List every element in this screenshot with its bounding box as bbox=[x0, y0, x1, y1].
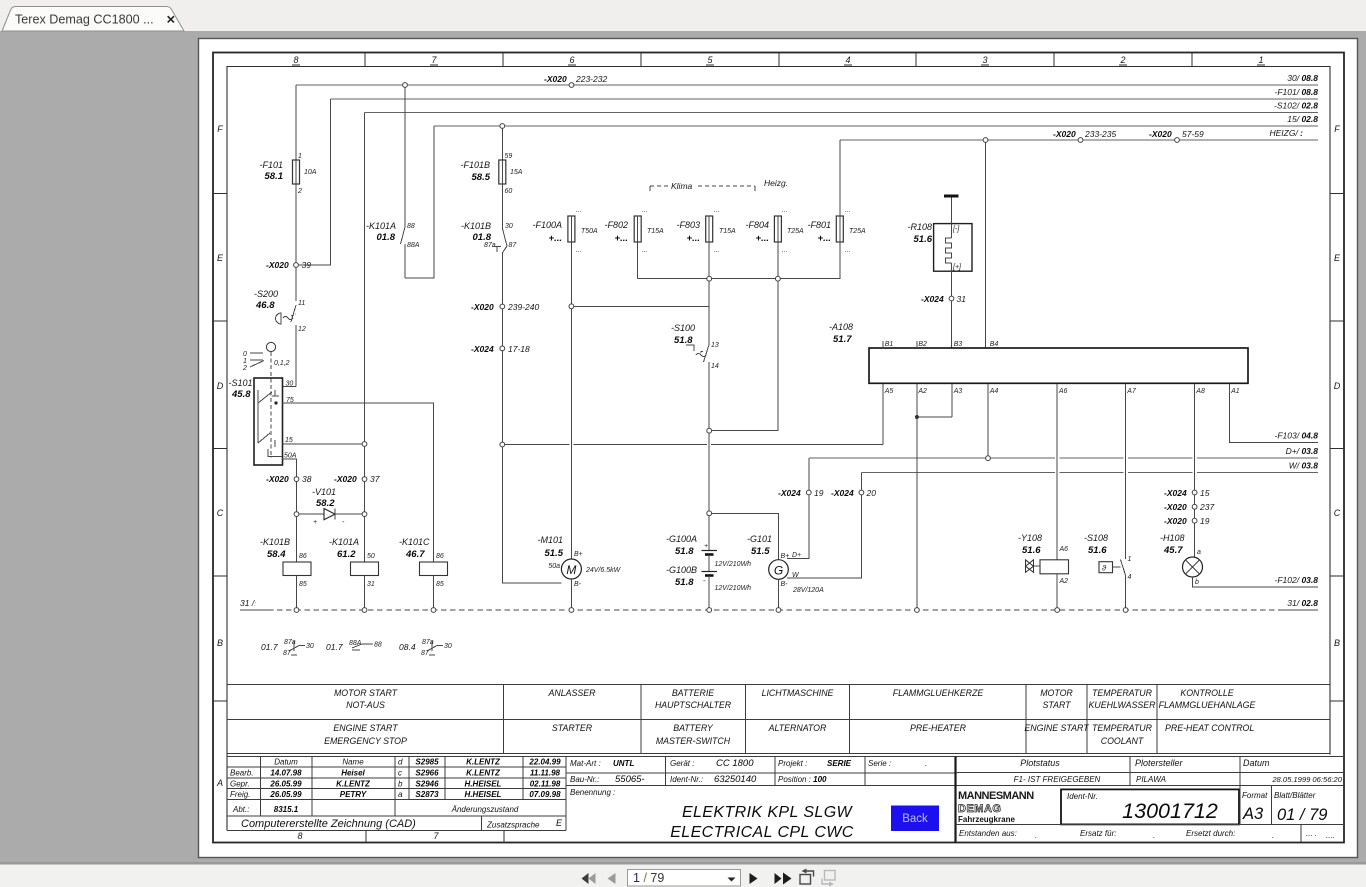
svg-text:57-59: 57-59 bbox=[1182, 129, 1204, 139]
svg-text:87: 87 bbox=[283, 650, 292, 657]
relay coil K101B bbox=[260, 537, 311, 610]
svg-text:15: 15 bbox=[285, 437, 293, 444]
svg-text:15A: 15A bbox=[510, 169, 523, 176]
svg-text:-G101: -G101 bbox=[747, 534, 772, 544]
svg-text:-V101: -V101 bbox=[312, 487, 336, 497]
node junction F804 bus bbox=[776, 276, 781, 281]
right margin row letters bbox=[1334, 124, 1341, 648]
svg-text:.: . bbox=[1272, 831, 1274, 840]
svg-text:28.05.1999 06:56:20: 28.05.1999 06:56:20 bbox=[1271, 775, 1342, 784]
svg-text:-X020: -X020 bbox=[544, 74, 567, 84]
document tab bbox=[2, 7, 184, 32]
svg-text:F: F bbox=[1334, 124, 1340, 134]
svg-text:G: G bbox=[774, 564, 783, 578]
battery G100B bbox=[666, 565, 751, 610]
svg-text:Ersetzt durch:: Ersetzt durch: bbox=[1186, 829, 1235, 838]
svg-text:24V/6.5kW: 24V/6.5kW bbox=[585, 567, 622, 574]
drawing inner frame bbox=[227, 67, 1330, 831]
svg-text:+...: +... bbox=[687, 233, 700, 244]
wire bus 30 (line 1) bbox=[296, 84, 1318, 86]
svg-text:MOTOR: MOTOR bbox=[1040, 688, 1073, 698]
svg-text:PRE-HEAT CONTROL: PRE-HEAT CONTROL bbox=[1165, 723, 1254, 733]
wire F803 bus down to S100 feed bbox=[708, 281, 710, 306]
relay contact K101A 88/88A bbox=[366, 83, 420, 278]
svg-text:30: 30 bbox=[505, 223, 513, 230]
svg-text:87: 87 bbox=[421, 650, 430, 657]
svg-text:233-235: 233-235 bbox=[1084, 129, 1116, 139]
svg-text:-F103/ 04.8: -F103/ 04.8 bbox=[1275, 431, 1319, 441]
wire S101-75 to K101C bbox=[282, 403, 434, 562]
svg-text:-X024: -X024 bbox=[1164, 488, 1187, 498]
svg-text:8: 8 bbox=[293, 55, 298, 65]
svg-text:BATTERY: BATTERY bbox=[673, 723, 714, 733]
toolbar previous-view icon bbox=[800, 869, 814, 885]
svg-text:T15A: T15A bbox=[719, 228, 736, 235]
connector -X020 237 bbox=[1164, 495, 1214, 512]
svg-text:51.5: 51.5 bbox=[751, 546, 770, 557]
svg-text:87: 87 bbox=[509, 242, 518, 249]
bottom margin column ticks and numbers bbox=[366, 831, 504, 842]
wire W bus bbox=[861, 472, 1318, 474]
svg-text:Format: Format bbox=[1242, 791, 1268, 800]
svg-text:Klima: Klima bbox=[671, 181, 693, 191]
svg-text:88: 88 bbox=[407, 223, 415, 230]
svg-text:4: 4 bbox=[845, 55, 850, 65]
svg-text:D+/ 03.8: D+/ 03.8 bbox=[1286, 446, 1319, 456]
svg-text:EMERGENCY STOP: EMERGENCY STOP bbox=[324, 736, 407, 746]
wire battery column bbox=[708, 433, 710, 550]
svg-text:A3: A3 bbox=[1242, 805, 1264, 823]
svg-text:38: 38 bbox=[302, 474, 312, 484]
svg-text:50: 50 bbox=[367, 553, 375, 560]
svg-text:26.05.99: 26.05.99 bbox=[269, 779, 302, 788]
svg-text:237: 237 bbox=[1199, 502, 1214, 512]
svg-text:11.11.98: 11.11.98 bbox=[530, 769, 561, 778]
svg-text:A: A bbox=[216, 778, 223, 788]
svg-text:12: 12 bbox=[298, 326, 306, 333]
svg-text:Serie :: Serie : bbox=[868, 759, 891, 768]
svg-text:B-: B- bbox=[574, 581, 582, 588]
svg-text:B+: B+ bbox=[574, 551, 583, 558]
svg-text:ELEKTRIK KPL SLGW: ELEKTRIK KPL SLGW bbox=[682, 804, 854, 821]
svg-text:B+: B+ bbox=[781, 553, 790, 560]
svg-text:Ersatz für:: Ersatz für: bbox=[1080, 829, 1116, 838]
wire S100 feed horizontal bbox=[574, 305, 709, 307]
svg-text:-X024: -X024 bbox=[471, 344, 494, 354]
toolbar first-page button bbox=[582, 873, 596, 884]
svg-text:B: B bbox=[1334, 638, 1340, 648]
wire bus -S102 (line 3) bbox=[365, 112, 1319, 114]
svg-text:D: D bbox=[217, 381, 224, 391]
connector -X020 239-240 bbox=[471, 302, 539, 312]
svg-text:A4: A4 bbox=[989, 388, 999, 395]
svg-text:-S108: -S108 bbox=[1084, 533, 1108, 543]
wire R108 to B3 bbox=[951, 301, 953, 348]
svg-text:E: E bbox=[1334, 253, 1341, 263]
wire X020-39 to bus line2 bbox=[298, 99, 331, 265]
svg-text:B4: B4 bbox=[990, 341, 999, 348]
node junction 50a feed bbox=[500, 442, 505, 447]
svg-text:B: B bbox=[217, 638, 223, 648]
svg-text:Plotstatus: Plotstatus bbox=[1020, 758, 1060, 768]
wire HEIZG to B4 bbox=[985, 142, 987, 348]
connector -X024 17-18 bbox=[471, 309, 530, 354]
svg-text:239-240: 239-240 bbox=[507, 302, 539, 312]
wire A6 to Y108 bbox=[1056, 384, 1058, 560]
relay contact K101B 30/87a/87 bbox=[461, 184, 517, 304]
svg-text:A6: A6 bbox=[1059, 546, 1069, 553]
svg-text:-K101B: -K101B bbox=[260, 537, 290, 547]
connector -X024 19 bbox=[778, 488, 824, 498]
svg-text:HEIZG/ :: HEIZG/ : bbox=[1269, 128, 1303, 138]
svg-text:Freig.: Freig. bbox=[230, 790, 250, 799]
svg-text:KONTROLLE: KONTROLLE bbox=[1180, 688, 1233, 698]
svg-text:CC 1800: CC 1800 bbox=[716, 758, 754, 769]
svg-text:S2966: S2966 bbox=[415, 769, 439, 778]
svg-text:FLAMMGLUEHANLAGE: FLAMMGLUEHANLAGE bbox=[1159, 700, 1256, 710]
svg-text:-G100B: -G100B bbox=[666, 565, 697, 575]
svg-text:-X020: -X020 bbox=[471, 302, 494, 312]
svg-text:HAUPTSCHALTER: HAUPTSCHALTER bbox=[655, 700, 732, 710]
svg-text:.: . bbox=[1153, 831, 1155, 840]
svg-text:26.05.99: 26.05.99 bbox=[269, 790, 302, 799]
wire F101 column x296 bbox=[282, 85, 296, 387]
svg-text:13: 13 bbox=[711, 342, 719, 349]
wire A1 to F103 bbox=[1229, 384, 1318, 443]
svg-text:Bau-Nr.:: Bau-Nr.: bbox=[570, 775, 600, 784]
svg-text:20: 20 bbox=[866, 488, 877, 498]
svg-text:A2: A2 bbox=[917, 388, 927, 395]
toolbar next-page button bbox=[750, 873, 758, 884]
svg-text:...: ... bbox=[576, 247, 582, 254]
wire bus HEIZG (line 5) bbox=[840, 139, 1318, 141]
title block centre section grid bbox=[566, 757, 1343, 786]
svg-text:Back: Back bbox=[902, 813, 928, 825]
wire K101A contact loop to bus 15 bbox=[405, 126, 434, 278]
svg-text:01 / 79: 01 / 79 bbox=[1277, 806, 1327, 824]
Mannesmann Demag logo bbox=[958, 790, 1034, 824]
svg-text:51.8: 51.8 bbox=[675, 546, 694, 557]
node ground junction A2 bbox=[915, 608, 920, 613]
svg-text:NOT-AUS: NOT-AUS bbox=[346, 700, 385, 710]
svg-text:S2946: S2946 bbox=[415, 779, 439, 788]
connector -X020 57-59 bbox=[1149, 129, 1204, 142]
svg-text:14: 14 bbox=[711, 363, 719, 370]
svg-text:-S100: -S100 bbox=[671, 323, 695, 333]
svg-text:-F102/ 03.8: -F102/ 03.8 bbox=[1275, 575, 1319, 585]
svg-text:F1- IST FREIGEGEBEN: F1- IST FREIGEGEBEN bbox=[1014, 775, 1101, 784]
node junction F101B on line 4 bbox=[500, 124, 505, 129]
svg-text:+: + bbox=[313, 519, 317, 526]
svg-text:51.5: 51.5 bbox=[545, 548, 564, 559]
ground bus 31 bbox=[240, 598, 1318, 610]
svg-text:58.4: 58.4 bbox=[267, 549, 286, 560]
wire K101B to junction 15-line bbox=[501, 351, 503, 442]
svg-text:Projekt :: Projekt : bbox=[778, 759, 807, 768]
svg-text:-F802: -F802 bbox=[604, 220, 628, 230]
relay coil K101C bbox=[399, 537, 448, 610]
svg-text:30/ 08.8: 30/ 08.8 bbox=[1287, 73, 1318, 83]
top margin column ticks bbox=[365, 53, 1192, 67]
svg-text:Computererstellte Zeichnung (C: Computererstellte Zeichnung (CAD) bbox=[241, 818, 416, 830]
svg-text:17-18: 17-18 bbox=[508, 344, 530, 354]
svg-text:19: 19 bbox=[1200, 516, 1210, 526]
svg-text:....: .... bbox=[1326, 831, 1335, 840]
svg-text:-F100A: -F100A bbox=[532, 220, 562, 230]
svg-text:-H108: -H108 bbox=[1160, 533, 1185, 543]
wire W from G101 bbox=[787, 495, 861, 578]
svg-text:K.LENTZ: K.LENTZ bbox=[466, 758, 501, 767]
svg-text:STARTER: STARTER bbox=[552, 723, 593, 733]
wire W connector to bus bbox=[860, 473, 862, 491]
switch S100 bbox=[671, 306, 719, 428]
svg-text:A5: A5 bbox=[884, 388, 894, 395]
connector -X020 37 bbox=[334, 474, 380, 484]
svg-text:-A108: -A108 bbox=[829, 322, 853, 332]
svg-text:MASTER-SWITCH: MASTER-SWITCH bbox=[656, 736, 731, 746]
title block personnel table bbox=[227, 757, 1343, 831]
svg-text:-X024: -X024 bbox=[921, 294, 944, 304]
wire S101-50A down bbox=[282, 459, 297, 477]
svg-text:D: D bbox=[1334, 381, 1341, 391]
svg-text:13001712: 13001712 bbox=[1122, 799, 1218, 823]
svg-text:-X020: -X020 bbox=[334, 474, 357, 484]
svg-text:-X020: -X020 bbox=[1053, 129, 1076, 139]
svg-text:ALTERNATOR: ALTERNATOR bbox=[768, 723, 827, 733]
svg-text:BATTERIE: BATTERIE bbox=[672, 688, 714, 698]
svg-text:86: 86 bbox=[436, 553, 444, 560]
svg-text:Änderungszustand: Änderungszustand bbox=[451, 805, 519, 814]
svg-text:2: 2 bbox=[242, 365, 247, 372]
connector -X020 19 bbox=[1164, 509, 1210, 526]
svg-text:11: 11 bbox=[298, 300, 305, 307]
wire S102 column x364.5 bbox=[364, 113, 366, 563]
svg-text:51.6: 51.6 bbox=[1088, 545, 1107, 556]
node ground junction G101 bbox=[776, 608, 781, 613]
svg-text:A6: A6 bbox=[1058, 388, 1068, 395]
wire fuse bottoms bus bbox=[638, 242, 841, 279]
svg-text:-G100A: -G100A bbox=[666, 534, 697, 544]
svg-text:-S101: -S101 bbox=[228, 378, 252, 388]
svg-text:d: d bbox=[398, 758, 403, 767]
svg-text:01.8: 01.8 bbox=[377, 232, 396, 243]
svg-text:a: a bbox=[398, 790, 403, 799]
svg-text:C: C bbox=[1334, 508, 1341, 518]
svg-text:T15A: T15A bbox=[647, 228, 664, 235]
svg-text:C: C bbox=[217, 508, 224, 518]
svg-text:PRE-HEATER: PRE-HEATER bbox=[910, 723, 967, 733]
svg-text:START: START bbox=[1042, 700, 1071, 710]
svg-text:+...: +... bbox=[818, 233, 831, 244]
svg-text:c: c bbox=[398, 769, 402, 778]
svg-text:Name: Name bbox=[342, 758, 364, 767]
svg-text:-X020: -X020 bbox=[1164, 516, 1187, 526]
svg-text:37: 37 bbox=[370, 474, 380, 484]
connector -X020 39 bbox=[266, 260, 311, 270]
right margin row ticks bbox=[1330, 194, 1344, 702]
origin row bbox=[956, 824, 1344, 842]
svg-text:E: E bbox=[217, 253, 224, 263]
node ground junction Y108 bbox=[1055, 608, 1060, 613]
function table grid bbox=[227, 685, 1330, 754]
motor M101 bbox=[537, 535, 621, 610]
svg-text:10A: 10A bbox=[304, 169, 317, 176]
battery G100A bbox=[666, 534, 751, 572]
top tab strip bbox=[0, 0, 1366, 31]
page sheet bbox=[199, 39, 1358, 858]
node junction battery/G101 bbox=[707, 511, 712, 516]
svg-text:30: 30 bbox=[306, 643, 314, 650]
svg-text:31: 31 bbox=[957, 294, 967, 304]
label Klima group bbox=[650, 181, 755, 191]
svg-text:1: 1 bbox=[243, 358, 247, 365]
svg-text:Position : 100: Position : 100 bbox=[778, 775, 827, 784]
svg-text:07.09.98: 07.09.98 bbox=[529, 790, 561, 799]
top margin column numbers bbox=[293, 55, 1263, 65]
svg-text:Abt.:: Abt.: bbox=[232, 805, 249, 814]
function table texts bbox=[324, 688, 1255, 746]
wire A4 to D+ bbox=[986, 384, 991, 461]
svg-text:-K101A: -K101A bbox=[329, 537, 359, 547]
svg-text:Terex Demag CC1800 ...: Terex Demag CC1800 ... bbox=[15, 13, 154, 27]
svg-text:ENGINE START: ENGINE START bbox=[333, 723, 398, 733]
svg-text:✕: ✕ bbox=[166, 15, 176, 27]
diode V101 bbox=[294, 487, 367, 526]
wire bus 15 (line 4) bbox=[434, 125, 1318, 127]
svg-text:30: 30 bbox=[286, 381, 294, 388]
wire 15-line to A5 bbox=[505, 384, 884, 445]
svg-text:-X024: -X024 bbox=[831, 488, 854, 498]
svg-text:...: ... bbox=[642, 207, 648, 214]
fuse F802 bbox=[604, 207, 664, 254]
svg-text:...: ... bbox=[845, 207, 851, 214]
svg-text:51.7: 51.7 bbox=[833, 334, 852, 345]
svg-text:Zusatzsprache: Zusatzsprache bbox=[486, 821, 540, 830]
svg-text:86: 86 bbox=[299, 553, 307, 560]
svg-text:E: E bbox=[556, 818, 563, 828]
svg-text:1: 1 bbox=[1258, 55, 1263, 65]
wire F100A/M101 column x571.4 bbox=[570, 242, 572, 559]
svg-text:Heizg.: Heizg. bbox=[764, 178, 788, 188]
node ground junction M101 bbox=[569, 608, 574, 613]
svg-text:-S102/ 02.8: -S102/ 02.8 bbox=[1274, 101, 1318, 111]
svg-text:01.7: 01.7 bbox=[326, 642, 343, 652]
svg-text:-K101A: -K101A bbox=[366, 221, 396, 231]
wire HEIZG bus down to F801 bbox=[839, 140, 841, 216]
fuse F101B bbox=[460, 128, 522, 195]
svg-text:88A: 88A bbox=[349, 640, 362, 647]
solenoid valve Y108 bbox=[1018, 533, 1069, 610]
drawing outer frame bbox=[213, 53, 1344, 843]
svg-text:[-]: [-] bbox=[952, 226, 960, 233]
bottom toolbar strip bbox=[0, 862, 1366, 887]
svg-text:[+]: [+] bbox=[952, 264, 962, 271]
svg-text:Datum: Datum bbox=[274, 758, 298, 767]
node junction S100 feed bbox=[569, 304, 574, 309]
svg-text:...: ... bbox=[782, 247, 788, 254]
svg-text:ENGINE START: ENGINE START bbox=[1024, 723, 1089, 733]
svg-text:51.8: 51.8 bbox=[674, 335, 693, 346]
svg-text:-X020: -X020 bbox=[1164, 502, 1187, 512]
svg-text:30: 30 bbox=[444, 643, 452, 650]
svg-text:63250140: 63250140 bbox=[714, 774, 757, 785]
svg-text:KUEHLWASSER: KUEHLWASSER bbox=[1089, 700, 1157, 710]
wire A7 to S108 bbox=[1125, 384, 1127, 559]
svg-text:1 / 79: 1 / 79 bbox=[633, 871, 664, 885]
svg-text:LICHTMASCHINE: LICHTMASCHINE bbox=[762, 688, 834, 698]
svg-text:-F801: -F801 bbox=[807, 220, 831, 230]
svg-text:-F804: -F804 bbox=[745, 220, 769, 230]
svg-text:+...: +... bbox=[615, 233, 628, 244]
thick divider before plot section bbox=[954, 757, 956, 843]
svg-text:...: ... bbox=[642, 247, 648, 254]
svg-text:31 /:: 31 /: bbox=[240, 598, 256, 608]
svg-text:61.2: 61.2 bbox=[337, 549, 356, 560]
fuse F803 bbox=[676, 207, 736, 254]
svg-text:Ident-Nr.: Ident-Nr. bbox=[1067, 792, 1098, 801]
svg-text:-F101/ 08.8: -F101/ 08.8 bbox=[1275, 87, 1319, 97]
connector -X024 20 bbox=[831, 488, 876, 498]
resistor R108 bbox=[907, 196, 972, 271]
svg-text:Bearb.: Bearb. bbox=[230, 769, 254, 778]
svg-text:Benennung :: Benennung : bbox=[570, 788, 615, 797]
svg-text:-X024: -X024 bbox=[778, 488, 801, 498]
svg-text:Blatt/Blätter: Blatt/Blätter bbox=[1274, 791, 1316, 800]
svg-text:58.2: 58.2 bbox=[316, 498, 335, 509]
generator G101 bbox=[712, 513, 824, 610]
wire fuse bus to junction bbox=[712, 281, 778, 431]
svg-text:01.7: 01.7 bbox=[261, 642, 278, 652]
svg-text:T50A: T50A bbox=[581, 228, 598, 235]
svg-text:51.8: 51.8 bbox=[675, 577, 694, 588]
svg-text:59: 59 bbox=[505, 153, 513, 160]
svg-text:S2873: S2873 bbox=[415, 790, 439, 799]
svg-text:B1: B1 bbox=[885, 341, 894, 348]
connector -X020 233-235 bbox=[1053, 129, 1116, 142]
svg-text:-R108: -R108 bbox=[907, 222, 932, 232]
svg-text:0: 0 bbox=[243, 351, 247, 358]
svg-text:1: 1 bbox=[298, 153, 302, 160]
thermal switch S108 bbox=[1084, 533, 1132, 610]
svg-text:51.6: 51.6 bbox=[1022, 545, 1041, 556]
relay coil K101A bbox=[329, 537, 379, 610]
toolbar next-view icon bbox=[822, 871, 835, 887]
svg-text:46.7: 46.7 bbox=[405, 549, 425, 560]
svg-text:85: 85 bbox=[299, 581, 307, 588]
svg-text:M: M bbox=[566, 563, 576, 577]
svg-text:TEMPERATUR: TEMPERATUR bbox=[1092, 688, 1153, 698]
svg-text:-F101: -F101 bbox=[259, 160, 283, 170]
toolbar page number box bbox=[628, 870, 741, 887]
node ground junction G100B bbox=[707, 608, 712, 613]
svg-text:88A: 88A bbox=[407, 242, 420, 249]
svg-text:85: 85 bbox=[436, 581, 444, 588]
svg-text:A1: A1 bbox=[1230, 388, 1240, 395]
fuse F100A bbox=[532, 207, 598, 254]
svg-text:...: ... bbox=[845, 247, 851, 254]
svg-text:TEMPERATUR: TEMPERATUR bbox=[1092, 723, 1153, 733]
svg-text:B2: B2 bbox=[918, 341, 927, 348]
Mat-Art row texts bbox=[570, 758, 927, 797]
svg-text:-X020: -X020 bbox=[266, 474, 289, 484]
svg-text:6: 6 bbox=[569, 55, 574, 65]
svg-text:Fahrzeugkrane: Fahrzeugkrane bbox=[958, 815, 1015, 824]
svg-text:A8: A8 bbox=[1195, 388, 1205, 395]
svg-text:45.7: 45.7 bbox=[1163, 545, 1183, 556]
svg-text:45.8: 45.8 bbox=[231, 389, 251, 400]
svg-text:Mat-Art :: Mat-Art : bbox=[570, 759, 601, 768]
svg-text:.: . bbox=[925, 759, 927, 768]
